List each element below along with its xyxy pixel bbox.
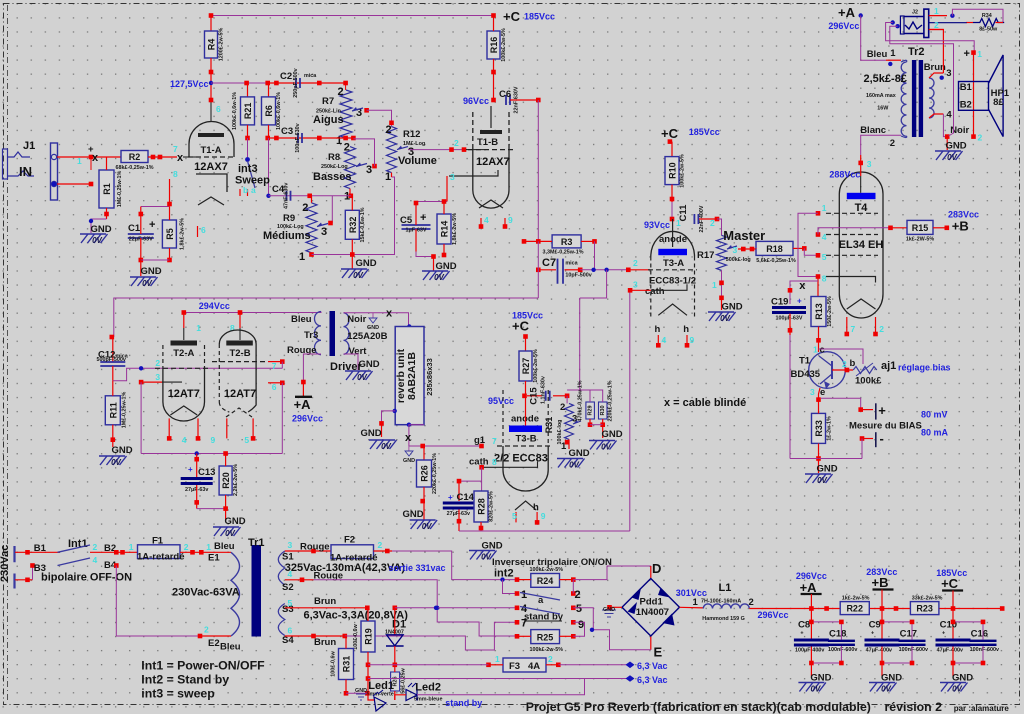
wire J2 shield loops xyxy=(891,20,895,24)
switch contacts row 4-5 xyxy=(515,606,520,611)
svg-text:1: 1 xyxy=(693,597,699,608)
svg-text:F3: F3 xyxy=(509,661,520,672)
wire T2-B cathode pin 6 xyxy=(268,382,282,384)
capacitor C12 xyxy=(110,335,115,340)
wire R7 wiper to R12 xyxy=(367,110,392,126)
wire int2 down xyxy=(503,580,518,594)
svg-text:ECC83-1/2: ECC83-1/2 xyxy=(649,276,696,287)
connector J1 xyxy=(51,143,58,200)
potentiometer R12 Volume xyxy=(387,127,397,173)
svg-text:x = cable blindé: x = cable blindé xyxy=(664,397,746,409)
svg-text:8: 8 xyxy=(173,169,178,179)
svg-text:1: 1 xyxy=(977,49,982,59)
svg-text:Pdd1: Pdd1 xyxy=(640,597,664,608)
tube T2-A xyxy=(183,313,185,329)
svg-text:Brun: Brun xyxy=(314,637,336,648)
svg-text:R4: R4 xyxy=(207,39,217,51)
svg-text:100k£-2w-5%: 100k£-2w-5% xyxy=(533,349,539,383)
svg-text:5: 5 xyxy=(576,603,582,615)
svg-text:GND: GND xyxy=(721,302,742,313)
resistor R29 xyxy=(586,402,595,419)
svg-text:g1: g1 xyxy=(474,435,486,446)
wire F2 out sortie xyxy=(374,550,393,552)
wire plate lead T1-A xyxy=(210,100,212,122)
svg-text:100k£-0,6w-1%: 100k£-0,6w-1% xyxy=(232,92,238,130)
svg-text:8£-50w: 8£-50w xyxy=(979,27,998,33)
wire T1-B heater pins xyxy=(480,218,482,226)
svg-text:27μF-63v: 27μF-63v xyxy=(447,511,470,517)
svg-text:T1-A: T1-A xyxy=(200,145,221,156)
resistor R20 xyxy=(219,466,232,495)
resistor R10 xyxy=(668,139,673,144)
svg-text:h: h xyxy=(655,324,661,335)
svg-text:Basses: Basses xyxy=(313,171,352,183)
svg-text:R34: R34 xyxy=(982,13,992,19)
svg-text:100k£-0,6w-1%: 100k£-0,6w-1% xyxy=(276,92,282,130)
svg-text:3: 3 xyxy=(450,172,455,182)
svg-text:8AB2A1B: 8AB2A1B xyxy=(406,352,418,400)
svg-text:mica: mica xyxy=(565,261,578,267)
svg-text:1: 1 xyxy=(676,218,681,228)
wire Brun to J2 xyxy=(929,30,943,74)
svg-text:cath: cath xyxy=(645,286,665,297)
svg-text:250k£-Log: 250k£-Log xyxy=(321,164,348,170)
svg-text:+: + xyxy=(420,212,426,224)
svg-text:mica: mica xyxy=(304,73,317,79)
svg-text:E1: E1 xyxy=(208,553,220,564)
wire to R9 wiper xyxy=(331,196,333,223)
svg-text:500k£-log: 500k£-log xyxy=(726,257,751,263)
svg-text:160mA max: 160mA max xyxy=(866,93,896,99)
ground small led xyxy=(356,694,366,700)
wire Noir to reverb xyxy=(344,313,409,327)
wire master bottom xyxy=(721,270,723,298)
svg-text:F2: F2 xyxy=(344,534,355,545)
svg-text:3: 3 xyxy=(321,226,327,238)
wire R1 bottom to gnd xyxy=(106,208,108,219)
svg-text:0V: 0V xyxy=(357,373,367,382)
svg-text:7: 7 xyxy=(272,361,277,371)
svg-text:GND: GND xyxy=(403,458,415,464)
svg-text:Aigus: Aigus xyxy=(313,114,344,126)
capacitor C10 xyxy=(952,609,954,639)
svg-text:3: 3 xyxy=(633,280,638,290)
svg-text:x: x xyxy=(386,308,393,320)
svg-text:1: 1 xyxy=(206,542,211,552)
svg-text:R33: R33 xyxy=(814,420,824,437)
svg-text:R30: R30 xyxy=(600,405,606,415)
ground stub noir xyxy=(372,313,374,318)
wire dry mix from C7 xyxy=(567,298,580,390)
main B+ rail xyxy=(766,608,1002,610)
wire T1-B cathode pin 3 xyxy=(446,176,448,202)
svg-text:T2-B: T2-B xyxy=(229,348,250,359)
resistor R18 xyxy=(756,241,793,255)
potentiometer R17 Master xyxy=(717,219,722,235)
svg-text:4: 4 xyxy=(182,435,187,445)
svg-text:7: 7 xyxy=(492,436,497,446)
svg-text:Mesure du BIAS: Mesure du BIAS xyxy=(849,421,922,432)
svg-text:Noir: Noir xyxy=(347,314,366,325)
wire R3 bypass xyxy=(594,241,596,269)
svg-text:GND: GND xyxy=(360,428,381,439)
svg-text:GND: GND xyxy=(945,141,966,152)
svg-text:2,5k£-8£: 2,5k£-8£ xyxy=(864,73,907,85)
svg-text:C9: C9 xyxy=(869,620,881,631)
svg-text:3: 3 xyxy=(733,245,738,255)
svg-text:+C: +C xyxy=(512,319,530,334)
svg-text:Driver: Driver xyxy=(330,361,363,373)
svg-text:b: b xyxy=(243,185,248,195)
svg-text:4: 4 xyxy=(93,555,98,565)
wire T4 cathode to R13 xyxy=(817,277,819,297)
svg-text:bipolaire OFF-ON: bipolaire OFF-ON xyxy=(41,572,132,584)
resistor R6 xyxy=(268,83,270,97)
svg-text:127,5Vcc: 127,5Vcc xyxy=(170,79,209,89)
svg-text:96Vcc: 96Vcc xyxy=(463,96,489,106)
svg-text:E: E xyxy=(654,645,663,660)
resistor R16 xyxy=(487,31,500,59)
wire T3-A grid xyxy=(628,269,650,271)
svg-text:+: + xyxy=(800,631,803,637)
svg-text:100μF-63V: 100μF-63V xyxy=(776,316,803,322)
svg-text:95Vcc: 95Vcc xyxy=(488,396,514,406)
svg-text:Bleu: Bleu xyxy=(867,49,888,60)
resistor R13 xyxy=(811,297,826,327)
svg-text:294Vcc: 294Vcc xyxy=(199,301,230,311)
svg-text:4: 4 xyxy=(946,110,952,121)
svg-text:S4: S4 xyxy=(282,635,294,646)
fuse F2 xyxy=(331,545,374,559)
wire bank loop xyxy=(882,622,912,663)
svg-text:h: h xyxy=(683,324,689,335)
svg-text:R15: R15 xyxy=(912,223,929,233)
svg-text:185Vcc: 185Vcc xyxy=(689,127,720,137)
svg-text:100nF-600v: 100nF-600v xyxy=(828,647,857,653)
svg-text:8: 8 xyxy=(822,274,827,284)
svg-text:R22: R22 xyxy=(846,604,863,614)
wire led2 loop xyxy=(395,695,406,700)
resistor R14 xyxy=(437,214,451,244)
svg-text:1: 1 xyxy=(934,6,939,16)
svg-text:par :alamature: par :alamature xyxy=(954,704,1010,713)
svg-text:15k£-0,6w-1%: 15k£-0,6w-1% xyxy=(360,207,366,242)
resistor R11 xyxy=(105,396,120,425)
wire R6 bottom xyxy=(268,125,270,138)
svg-text:GND: GND xyxy=(111,445,132,456)
trimmer aj1 100k xyxy=(853,367,877,374)
svg-text:J2: J2 xyxy=(912,10,918,16)
svg-text:4: 4 xyxy=(484,215,489,225)
tube T1-B xyxy=(472,112,474,150)
svg-text:R7: R7 xyxy=(322,96,334,107)
svg-text:100nF-600v: 100nF-600v xyxy=(899,647,928,653)
wire R8 bottom xyxy=(349,189,351,196)
wire C6 column xyxy=(537,241,539,298)
wire T3-B anode to 95Vcc xyxy=(525,412,527,426)
wire grid leak bottoms xyxy=(589,419,591,425)
wire reverb tap long xyxy=(114,298,539,337)
wire S1 to F2 xyxy=(285,550,331,552)
svg-text:0V: 0V xyxy=(881,685,891,694)
svg-text:C14: C14 xyxy=(457,492,475,503)
wire bridge left to gnd xyxy=(609,606,623,608)
svg-text:D: D xyxy=(652,561,661,576)
bridge rectifier Pdd1 xyxy=(622,579,680,637)
svg-text:1200£-2w-5%: 1200£-2w-5% xyxy=(219,28,225,62)
svg-text:x: x xyxy=(799,280,806,292)
wire F1 to Tr1 xyxy=(180,551,231,553)
transistor T1 BD435 xyxy=(809,352,846,389)
svg-text:0V: 0V xyxy=(481,553,491,562)
svg-text:2: 2 xyxy=(184,542,189,552)
svg-text:288Vcc: 288Vcc xyxy=(829,170,860,180)
svg-text:0V: 0V xyxy=(142,279,152,288)
wire T4 heater pins xyxy=(846,317,848,334)
svg-text:Blanc: Blanc xyxy=(860,125,886,136)
transformer Tr3 primary xyxy=(315,312,322,355)
potentiometer R8 Basses xyxy=(345,147,356,189)
wire R8 wiper to bass bus xyxy=(353,139,374,166)
svg-text:301Vcc: 301Vcc xyxy=(676,588,707,598)
resistor R21 xyxy=(247,83,249,97)
wire Vert to gnd xyxy=(344,354,359,370)
svg-text:220k£-0,25w-1%: 220k£-0,25w-1% xyxy=(608,380,614,421)
wire to + probe xyxy=(821,398,861,409)
svg-text:R23: R23 xyxy=(916,604,933,614)
wire T3-A heater pins xyxy=(657,335,659,345)
resistor R26 xyxy=(423,446,425,460)
svg-text:2: 2 xyxy=(575,589,581,601)
svg-text:1: 1 xyxy=(385,171,391,183)
svg-text:x: x xyxy=(92,152,99,164)
svg-text:int2: int2 xyxy=(494,568,514,580)
transformer Tr1 secondary S3 S4 xyxy=(278,604,285,636)
svg-text:+: + xyxy=(448,493,453,502)
svg-text:1M£-0,25w-1%: 1M£-0,25w-1% xyxy=(117,171,123,208)
svg-text:296Vcc: 296Vcc xyxy=(292,414,323,424)
svg-text:Médiums: Médiums xyxy=(263,230,311,242)
svg-text:int3 = sweep: int3 = sweep xyxy=(141,687,214,701)
svg-text:2: 2 xyxy=(978,133,983,143)
svg-text:5: 5 xyxy=(512,511,517,521)
resistor R33 xyxy=(812,413,826,443)
svg-text:+: + xyxy=(188,465,193,474)
svg-text:1: 1 xyxy=(196,323,201,333)
svg-text:2: 2 xyxy=(344,142,350,154)
transformer Tr2 secondary xyxy=(929,78,934,118)
svg-text:2: 2 xyxy=(710,218,715,228)
svg-text:0V: 0V xyxy=(92,236,102,245)
wire master wiper xyxy=(738,248,756,250)
tube T1-A xyxy=(189,122,234,158)
svg-text:IN: IN xyxy=(19,164,32,179)
svg-text:R31: R31 xyxy=(342,656,352,673)
svg-text:R10: R10 xyxy=(668,162,678,179)
wire cathode bus xyxy=(416,201,447,203)
svg-text:Hammond 159 G: Hammond 159 G xyxy=(702,616,745,622)
svg-text:2: 2 xyxy=(633,258,638,268)
wire bass bus xyxy=(268,137,354,139)
wire cathode bus xyxy=(141,453,282,455)
tube T3-A xyxy=(672,219,674,247)
resistor R28 xyxy=(474,491,488,522)
svg-text:S2: S2 xyxy=(282,582,294,593)
wire bank loop xyxy=(953,622,983,663)
wire T2-B heater pins xyxy=(226,418,228,438)
svg-text:0V: 0V xyxy=(111,458,121,467)
svg-text:296Vcc: 296Vcc xyxy=(758,610,789,620)
svg-text:100k£-2w-5%: 100k£-2w-5% xyxy=(680,154,686,188)
svg-text:16W: 16W xyxy=(877,106,889,112)
svg-text:9: 9 xyxy=(541,511,546,521)
svg-text:5: 5 xyxy=(288,598,293,608)
ground below Noir xyxy=(946,137,948,150)
resistor R32 xyxy=(345,210,359,239)
svg-text:GND: GND xyxy=(816,464,837,475)
svg-text:9: 9 xyxy=(578,619,584,631)
svg-text:GND: GND xyxy=(355,258,376,269)
svg-text:T2-A: T2-A xyxy=(173,348,194,359)
wire +A to Tr2 xyxy=(861,16,886,61)
connector J2 xyxy=(924,9,929,37)
svg-text:C18: C18 xyxy=(829,629,846,640)
svg-text:B2: B2 xyxy=(960,100,972,111)
svg-text:2: 2 xyxy=(560,402,565,413)
svg-text:+B: +B xyxy=(952,219,969,234)
wire J2 tip xyxy=(929,15,947,17)
svg-text:révision 2: révision 2 xyxy=(885,700,943,714)
svg-text:3: 3 xyxy=(867,159,872,169)
svg-text:Brun: Brun xyxy=(924,62,946,73)
svg-text:2: 2 xyxy=(890,138,895,149)
wire Rouge to +A xyxy=(303,354,321,382)
svg-text:C16: C16 xyxy=(971,629,988,640)
svg-text:185Vcc: 185Vcc xyxy=(524,12,555,22)
svg-text:12AX7: 12AX7 xyxy=(476,156,510,168)
switch contacts row 1-2 xyxy=(515,591,520,596)
svg-text:C8: C8 xyxy=(798,620,810,631)
svg-text:Tr1: Tr1 xyxy=(248,537,265,549)
svg-text:2,2k£-2w-5%: 2,2k£-2w-5% xyxy=(233,464,239,496)
svg-text:2: 2 xyxy=(93,542,98,552)
svg-text:325Vac-130mA(42,3VA): 325Vac-130mA(42,3VA) xyxy=(285,562,406,574)
svg-text:2: 2 xyxy=(454,138,459,148)
capacitor C6 xyxy=(506,95,510,105)
wire mains L xyxy=(15,551,60,553)
svg-text:R14: R14 xyxy=(440,221,450,238)
speaker HP1 xyxy=(959,82,989,111)
svg-text:0V: 0V xyxy=(353,271,363,280)
wire follower return bus xyxy=(459,530,630,532)
svg-text:R31: R31 xyxy=(544,417,554,434)
svg-text:aj1: aj1 xyxy=(881,360,896,372)
svg-text:100k£-2w-5%: 100k£-2w-5% xyxy=(530,567,564,573)
svg-text:R13: R13 xyxy=(814,303,824,320)
resistor R19 xyxy=(361,621,375,652)
svg-text:R21: R21 xyxy=(243,103,253,120)
svg-text:235x86x33: 235x86x33 xyxy=(425,358,434,396)
fuse F3 xyxy=(503,658,546,672)
svg-text:100k£-2w-5%: 100k£-2w-5% xyxy=(501,28,507,62)
capacitor C2 xyxy=(296,78,300,88)
wire cathode xyxy=(169,179,171,205)
wire to ground xyxy=(416,252,434,257)
svg-text:x: x xyxy=(405,432,412,444)
transformer Tr1 core xyxy=(252,545,262,637)
svg-text:5: 5 xyxy=(244,435,249,445)
svg-text:R6: R6 xyxy=(264,105,274,117)
wire 6,3vac A xyxy=(546,664,560,666)
wire R18 to g1 xyxy=(804,248,818,255)
svg-text:-: - xyxy=(880,431,884,446)
svg-text:1: 1 xyxy=(822,203,827,213)
svg-text:3: 3 xyxy=(946,68,951,79)
svg-text:+A: +A xyxy=(800,580,818,595)
svg-text:+C: +C xyxy=(941,576,959,591)
svg-text:R8: R8 xyxy=(328,152,340,163)
resistor R31 heater ref xyxy=(339,649,354,680)
svg-text:1: 1 xyxy=(813,345,818,355)
svg-text:Tr3: Tr3 xyxy=(304,330,318,341)
transformer Tr1 secondary S1 S2 xyxy=(278,551,285,585)
svg-text:L1: L1 xyxy=(719,582,732,594)
svg-text:80 mV: 80 mV xyxy=(921,410,948,420)
wire volume wiper to T1-B grid xyxy=(408,149,466,151)
resistor R1 xyxy=(90,157,92,170)
wire xyxy=(211,82,268,84)
reverb unit xyxy=(407,324,411,328)
svg-text:Bleu: Bleu xyxy=(291,314,312,325)
svg-text:6: 6 xyxy=(288,626,293,636)
svg-text:R16: R16 xyxy=(489,37,499,54)
wire reverb out xyxy=(407,423,411,427)
svg-text:F1: F1 xyxy=(152,536,164,547)
svg-text:GND: GND xyxy=(224,516,245,527)
svg-text:47μF-400v: 47μF-400v xyxy=(937,648,963,654)
svg-text:+: + xyxy=(964,48,970,60)
wire Brun pin3 xyxy=(929,73,943,78)
svg-text:Int2 = Stand by: Int2 = Stand by xyxy=(141,673,229,687)
svg-text:Tr2: Tr2 xyxy=(908,46,925,58)
svg-text:0V: 0V xyxy=(422,522,432,531)
wire J2 sleeve xyxy=(929,29,944,31)
svg-text:BD435: BD435 xyxy=(791,369,821,380)
wire T4 plate from Tr2 xyxy=(860,155,862,176)
svg-text:1: 1 xyxy=(299,251,305,263)
wire bottom bus to C7 xyxy=(311,253,313,255)
wire plate bus 127V xyxy=(268,82,346,84)
svg-text:C12: C12 xyxy=(98,350,115,361)
svg-text:R24: R24 xyxy=(537,576,554,586)
svg-text:0V: 0V xyxy=(811,685,821,694)
wire J2 ring xyxy=(929,22,967,24)
svg-text:C7: C7 xyxy=(542,257,556,269)
svg-text:7: 7 xyxy=(851,324,856,334)
wire xyxy=(211,15,493,17)
svg-text:1: 1 xyxy=(712,280,717,290)
svg-text:1: 1 xyxy=(336,135,342,147)
wire T2-B grid pin 7 xyxy=(268,361,282,363)
svg-text:10pF-500v: 10pF-500v xyxy=(565,273,591,279)
svg-text:820£-2w-5%: 820£-2w-5% xyxy=(489,491,495,522)
svg-text:E2: E2 xyxy=(208,638,220,649)
svg-text:GND: GND xyxy=(355,688,367,694)
svg-text:GND: GND xyxy=(603,607,615,613)
svg-text:6: 6 xyxy=(216,104,221,114)
svg-text:8£: 8£ xyxy=(993,97,1004,108)
capacitor C13 xyxy=(196,454,198,478)
